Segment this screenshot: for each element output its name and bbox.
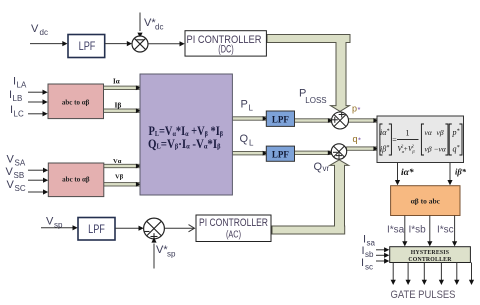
label Vdc: [31, 23, 48, 37]
wire V_SB to abc box 2: [28, 178, 48, 183]
svg-text:dc: dc: [40, 28, 48, 37]
label I_sa: [363, 234, 376, 248]
wire S2 to PI controller AC (open arrow): [165, 225, 195, 232]
wire bus LPF1 to p* junction: [295, 118, 333, 123]
svg-text:sc: sc: [365, 262, 373, 271]
svg-text:sp: sp: [167, 249, 176, 258]
label Q_vr: [314, 161, 330, 173]
svg-text:sa: sa: [367, 238, 376, 247]
svg-text:LC: LC: [14, 109, 24, 118]
wire bus Vbeta (pink box2 to PL box): [101, 182, 141, 187]
gate pulse wire 3: [422, 263, 427, 286]
svg-text:I: I: [361, 257, 364, 269]
svg-text:V: V: [6, 166, 14, 178]
svg-text:CONTROLLER: CONTROLLER: [408, 257, 452, 263]
wire bus P_L (PL box to LPF1): [232, 116, 267, 121]
label Q_L: [240, 133, 255, 148]
wire bus Valpha (pink box2 to PL box): [101, 164, 141, 169]
label V_SB: [6, 166, 25, 180]
wire Vsp to LPF3w: [41, 225, 78, 230]
svg-text:vα: vα: [425, 128, 433, 137]
PQ computation block (power calculation): [140, 74, 232, 195]
svg-text:vβ: vβ: [425, 145, 432, 154]
svg-text:abc to αβ: abc to αβ: [62, 176, 90, 184]
svg-text:(DC): (DC): [218, 44, 234, 56]
label V_SA: [7, 154, 26, 168]
label q*: [353, 134, 362, 145]
gate pulse wire 6: [469, 263, 474, 286]
svg-text:q: q: [353, 134, 358, 144]
gate pulse wire 5: [454, 263, 459, 286]
svg-text:V: V: [7, 179, 15, 191]
wire bus p* junction to matrix box: [349, 118, 379, 123]
wire I_LC to abc box: [28, 111, 48, 116]
label I_LB: [9, 89, 22, 103]
wire I_LB to abc box: [28, 99, 48, 104]
gate pulse wire 2: [406, 263, 411, 286]
label I_LC: [10, 104, 24, 118]
wire bus Ibeta (pink box1 to PL box): [101, 108, 141, 113]
svg-text:Q: Q: [314, 161, 323, 173]
LPF block (P path, blue): [266, 111, 294, 126]
LPF block (DC): [68, 35, 105, 58]
svg-text:LPF: LPF: [272, 149, 290, 159]
wire matrix to ab-box (i-alpha*): [395, 163, 400, 186]
svg-text:SB: SB: [14, 171, 25, 180]
label V_sp: [46, 216, 63, 230]
svg-text:*: *: [358, 135, 361, 144]
svg-text:vr: vr: [323, 164, 330, 173]
wire V_SC to abc box 2: [28, 189, 48, 194]
wire V*sp up into S2: [151, 237, 156, 268]
wire I_sc to hysteresis: [376, 258, 389, 263]
svg-text:PI CONTROLLER: PI CONTROLLER: [199, 217, 268, 229]
label I_sb: [362, 245, 375, 259]
svg-text:I*sc: I*sc: [437, 225, 454, 236]
label P_L: [241, 99, 254, 113]
svg-text:P: P: [241, 99, 248, 111]
gate pulse wire 4: [439, 263, 444, 286]
svg-text:dc: dc: [155, 22, 163, 31]
PI controller (AC) block: [196, 215, 271, 242]
wire bus Q_L (PL box to LPF2): [232, 151, 267, 156]
svg-text:sb: sb: [365, 250, 374, 259]
svg-text:I*sa: I*sa: [387, 225, 405, 236]
wire V*dc down into S1: [137, 13, 142, 38]
wire I_sb to hysteresis: [376, 253, 389, 258]
wire I_LA to abc box: [28, 90, 48, 95]
svg-text:=: =: [392, 136, 397, 145]
wire bus q* junction to matrix box: [347, 146, 378, 151]
svg-text:V: V: [46, 216, 54, 228]
matrix equation block: [377, 116, 464, 163]
svg-text:GATE PULSES: GATE PULSES: [391, 289, 456, 301]
svg-text:iβ*: iβ*: [455, 167, 467, 177]
svg-text:I*sb: I*sb: [409, 225, 427, 236]
svg-text:SA: SA: [15, 158, 26, 167]
svg-text:L: L: [249, 104, 254, 113]
LPF block (Q path, blue): [266, 146, 294, 161]
svg-text:SC: SC: [15, 184, 26, 193]
svg-text:V: V: [7, 154, 15, 166]
wire Vdc to LPF1w: [30, 41, 68, 46]
label I_sc: [361, 257, 373, 271]
svg-text:1: 1: [406, 129, 410, 138]
label I_LA: [13, 75, 27, 89]
wire I_sa to hysteresis: [376, 247, 389, 252]
gate pulse wire 1: [391, 263, 396, 286]
svg-text:Iβ: Iβ: [115, 100, 122, 109]
label P_LOSS: [299, 87, 327, 105]
abc to alpha-beta block 2 (voltages): [48, 163, 104, 197]
summing junction p*: [332, 112, 349, 130]
summing junction S1 (Vdc loop): [132, 36, 148, 52]
hysteresis controller block: [390, 247, 471, 263]
svg-text:(AC): (AC): [226, 230, 241, 241]
svg-text:iα*: iα*: [401, 167, 414, 178]
svg-text:L: L: [249, 139, 254, 148]
label V*dc: [144, 17, 163, 31]
svg-text:−vα: −vα: [434, 145, 447, 154]
summing junction q*: [331, 144, 346, 159]
svg-text:LB: LB: [13, 94, 23, 103]
LPF block (AC, white): [78, 218, 115, 241]
wire LPF3w to summing junction S2: [115, 226, 144, 231]
svg-text:*: *: [358, 105, 361, 114]
wire matrix to ab-box (i-beta*): [447, 163, 452, 186]
wire V_SA to abc box 2: [28, 168, 48, 173]
svg-text:LA: LA: [17, 81, 27, 90]
summing junction S2 (Vsp loop): [144, 218, 165, 240]
svg-text:LPF: LPF: [88, 224, 105, 236]
wire ab-box to hysteresis (I*sc): [452, 216, 457, 247]
svg-text:Vα2+Vβ2: Vα2+Vβ2: [398, 144, 416, 154]
wire LPF1w to summing junction S1: [105, 41, 132, 46]
wire bus LPF2 to q* junction: [295, 150, 333, 155]
svg-text:Iα: Iα: [113, 78, 120, 86]
abc to alpha-beta block 1 (currents): [48, 84, 104, 119]
wire bus Ialpha (pink box1 to PL box): [101, 85, 141, 90]
label V_SC: [7, 179, 26, 193]
svg-text:LPF: LPF: [79, 41, 96, 53]
svg-text:Q: Q: [240, 133, 249, 145]
PI controller (DC) block: [185, 31, 266, 56]
wire ab-box to hysteresis (I*sb): [427, 216, 432, 247]
label p*: [352, 104, 361, 115]
svg-text:LPF: LPF: [272, 114, 290, 124]
svg-text:LOSS: LOSS: [305, 96, 326, 105]
wire ab-box to hysteresis (I*sa): [402, 216, 407, 247]
svg-text:p: p: [352, 104, 357, 114]
alpha-beta to abc block: [391, 186, 460, 216]
svg-text:abc to αβ: abc to αβ: [62, 98, 90, 106]
svg-text:vβ: vβ: [437, 128, 444, 137]
svg-text:V: V: [31, 23, 39, 35]
wire S1 to PI controller DC: [148, 41, 185, 46]
svg-text:HYSTERESIS: HYSTERESIS: [411, 250, 449, 256]
label V*sp: [156, 244, 176, 258]
svg-text:Vβ: Vβ: [115, 174, 124, 181]
bus PI-AC output to q* junction (Q_vr path): [272, 160, 349, 234]
svg-text:Vα: Vα: [113, 158, 122, 165]
bus PI-DC output to p* junction (P_LOSS path): [267, 35, 350, 112]
svg-text:αβ to abc: αβ to abc: [411, 197, 441, 206]
